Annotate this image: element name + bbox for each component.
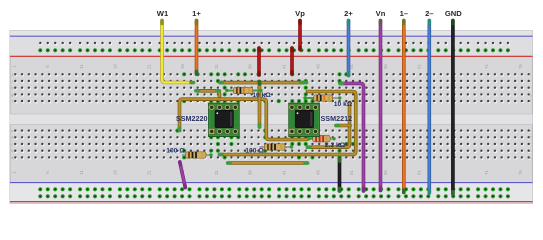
svg-text:b: b (11, 149, 13, 153)
column numbers and row letters (11, 64, 532, 175)
wire 1+ orange (195, 21, 199, 75)
resistor R3 10k (225, 87, 271, 99)
wire Vn purple (379, 21, 383, 191)
svg-text:1: 1 (11, 65, 16, 68)
svg-text:36: 36 (248, 170, 253, 175)
wire tan big loop (T4) (220, 92, 356, 155)
resistor R2 100 (245, 144, 293, 155)
svg-text:2.2 kΩ: 2.2 kΩ (325, 142, 346, 149)
wire GND black (451, 21, 455, 195)
svg-text:SSM2212: SSM2212 (321, 114, 353, 123)
svg-text:71: 71 (484, 170, 489, 175)
wire tan long bus (T3-V2-B1) (180, 99, 309, 139)
resistor R5 2.2k (307, 136, 345, 150)
svg-text:16: 16 (113, 64, 118, 69)
svg-text:100 Ω: 100 Ω (245, 147, 264, 154)
svg-text:j: j (11, 73, 13, 77)
resistor R1 100 (166, 148, 212, 159)
wire purple net (P1) (340, 83, 364, 191)
transistor-pair board U1 SSM2220 (176, 103, 239, 136)
wire red jumper B (290, 48, 294, 74)
wire 1- orange (402, 21, 406, 193)
transistor-pair board U2 SSM2212 (289, 103, 352, 136)
svg-text:h: h (529, 86, 531, 90)
svg-text:1–: 1– (400, 9, 408, 18)
wire tan vertical jumper (V1) (258, 82, 262, 128)
svg-text:61: 61 (417, 64, 422, 69)
wire 2- blue (427, 21, 431, 194)
svg-text:b: b (529, 149, 531, 153)
svg-text:10 kΩ: 10 kΩ (252, 92, 271, 99)
svg-text:Vn: Vn (376, 9, 386, 18)
breadboard holes grid (14, 42, 531, 199)
svg-text:GND: GND (445, 9, 462, 18)
wire black short jumper (338, 159, 342, 192)
svg-text:1: 1 (11, 171, 16, 174)
wire W1 yellow (162, 21, 194, 83)
svg-text:21: 21 (146, 64, 151, 69)
svg-text:41: 41 (282, 64, 287, 69)
svg-text:e: e (11, 129, 13, 133)
svg-text:j: j (529, 73, 531, 77)
bottom rail red line (10, 201, 533, 203)
svg-text:c: c (11, 142, 13, 146)
svg-text:41: 41 (282, 170, 287, 175)
svg-text:1+: 1+ (192, 9, 201, 18)
wire tan bus row g (T1) (220, 81, 307, 85)
svg-text:SSM2220: SSM2220 (176, 114, 208, 123)
svg-text:56: 56 (383, 64, 388, 69)
svg-text:61: 61 (417, 170, 422, 175)
svg-text:W1: W1 (157, 9, 169, 18)
svg-text:g: g (11, 93, 13, 97)
svg-text:21: 21 (146, 170, 151, 175)
svg-text:31: 31 (214, 170, 219, 175)
svg-text:100 Ω: 100 Ω (166, 148, 185, 155)
svg-text:46: 46 (315, 64, 320, 69)
svg-text:e: e (529, 129, 531, 133)
svg-text:36: 36 (248, 64, 253, 69)
wire tan vertical right of U2 (B2a) (308, 103, 350, 148)
svg-text:d: d (11, 136, 13, 140)
top rail blue line (10, 35, 533, 37)
svg-text:h: h (11, 86, 13, 90)
svg-text:Vp: Vp (295, 9, 305, 18)
wire tan bus row a (B3) (228, 161, 308, 165)
wire tan stub right of U2 (B2b) (336, 124, 350, 128)
svg-text:10 kΩ: 10 kΩ (334, 101, 353, 108)
svg-text:c: c (529, 142, 531, 146)
svg-text:11: 11 (79, 170, 84, 175)
svg-text:76: 76 (518, 170, 523, 175)
breadboard body (10, 31, 533, 204)
wire tan to U1 pin (T2) (196, 91, 220, 100)
wire red jumper A (257, 48, 261, 75)
svg-text:51: 51 (349, 170, 354, 175)
bottom rail blue line (10, 182, 533, 184)
resistor R4 10k (303, 95, 353, 108)
svg-text:31: 31 (214, 64, 219, 69)
svg-text:56: 56 (383, 170, 388, 175)
svg-text:26: 26 (180, 64, 185, 69)
top rail red line (10, 55, 533, 57)
svg-text:76: 76 (518, 64, 523, 69)
svg-text:16: 16 (113, 170, 118, 175)
svg-text:2+: 2+ (344, 9, 353, 18)
svg-text:2–: 2– (425, 9, 433, 18)
svg-text:71: 71 (484, 64, 489, 69)
svg-text:i: i (12, 79, 13, 83)
wire purple short jumper (180, 162, 186, 188)
svg-text:46: 46 (315, 170, 320, 175)
svg-text:d: d (529, 136, 531, 140)
svg-text:g: g (529, 93, 531, 97)
wire Vp red (298, 21, 302, 50)
svg-text:11: 11 (79, 64, 84, 69)
wire 2+ blue (347, 21, 351, 76)
